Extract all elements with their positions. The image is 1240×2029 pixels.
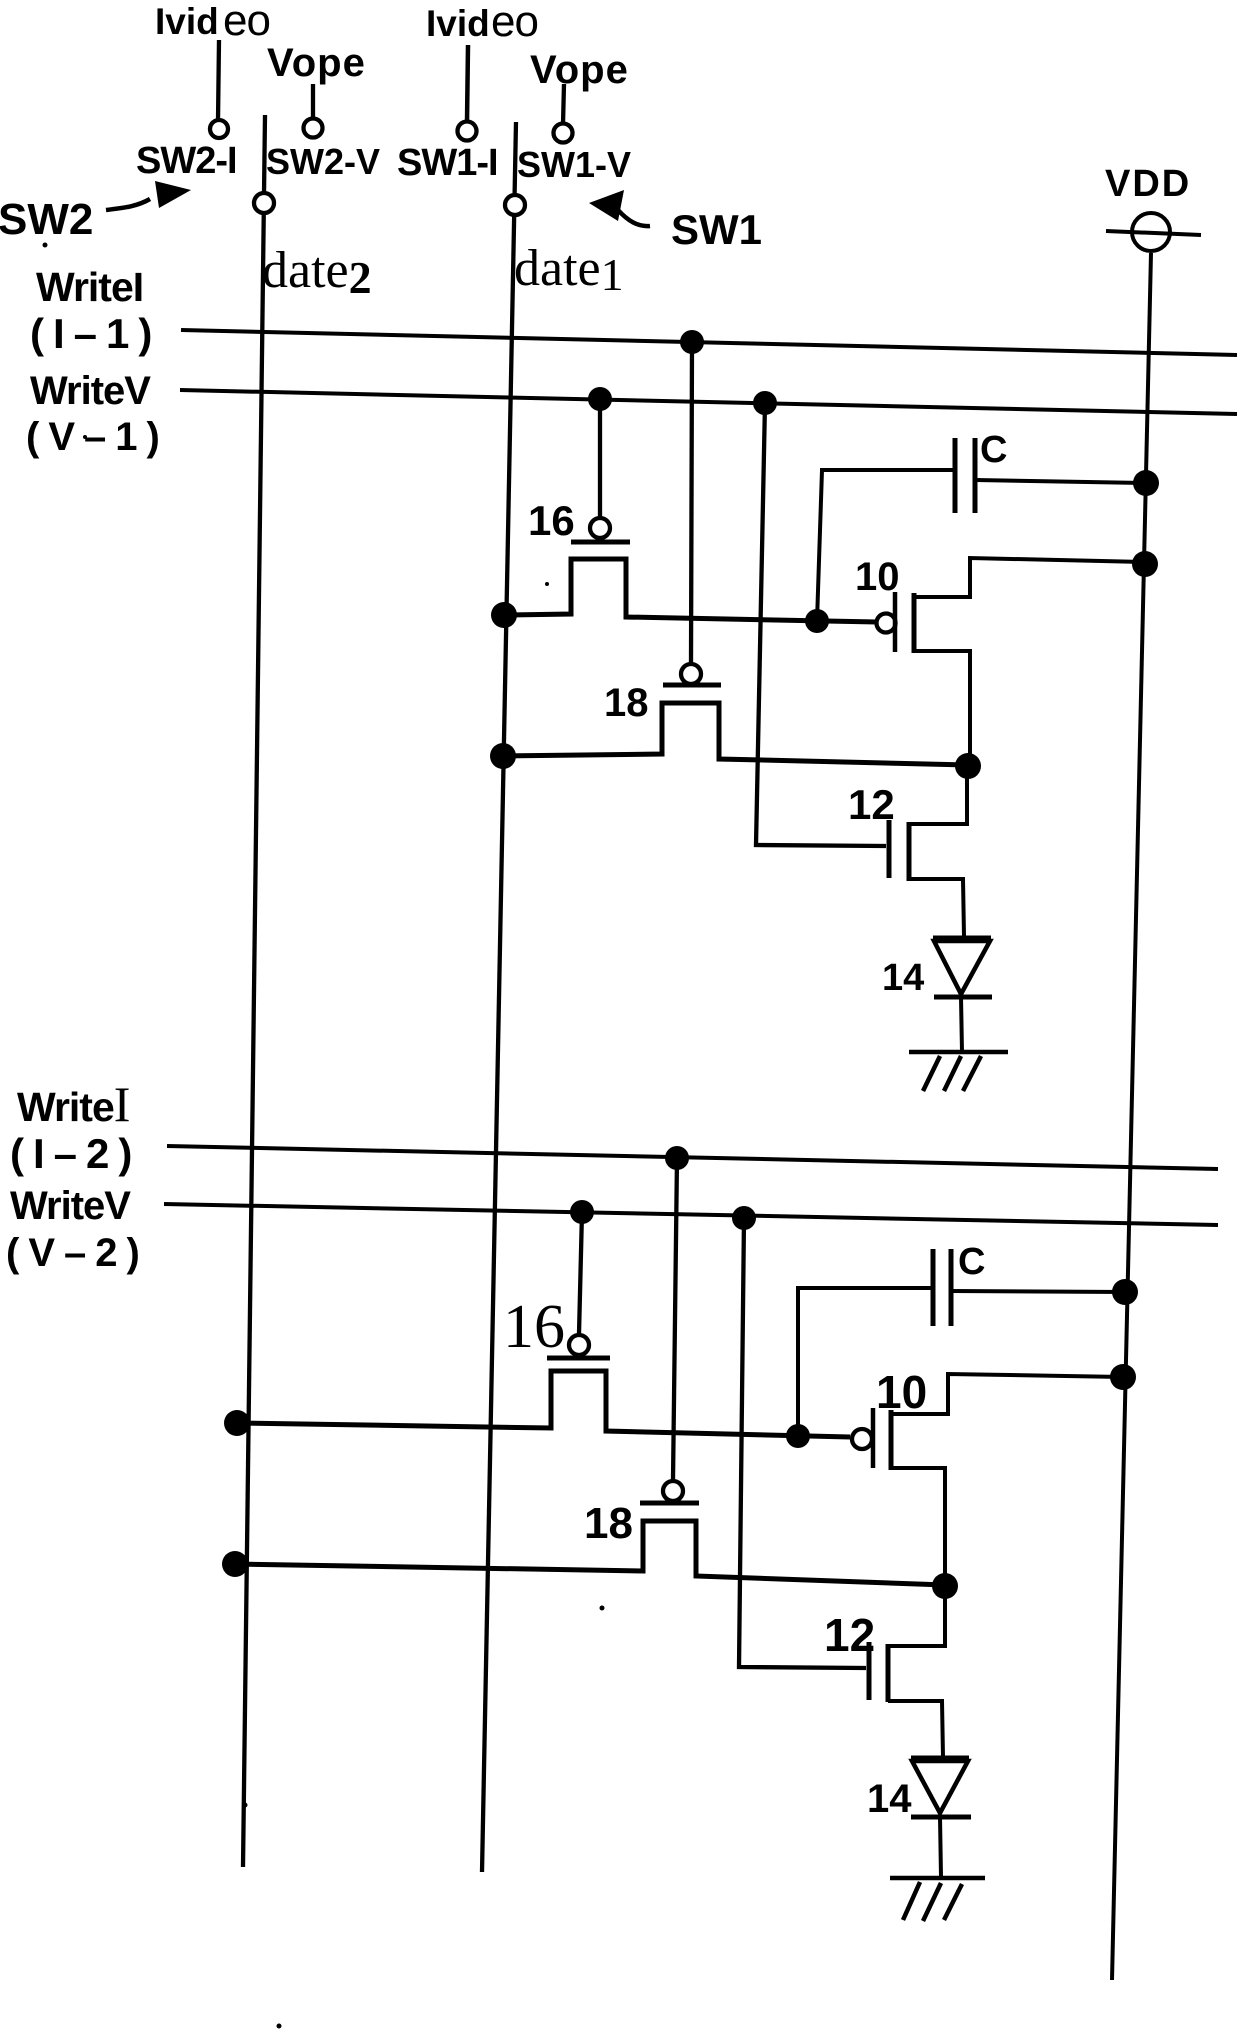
- svg-text:SW1: SW1: [671, 206, 762, 253]
- svg-text:(V–1): (V–1): [26, 415, 169, 459]
- svg-text:date2: date2: [262, 242, 372, 303]
- svg-text:(I–2): (I–2): [10, 1130, 141, 1177]
- svg-text:10: 10: [876, 1366, 927, 1418]
- svg-text:16: 16: [503, 1293, 565, 1361]
- svg-text:18: 18: [604, 681, 649, 725]
- svg-text:WriteI: WriteI: [36, 264, 143, 310]
- svg-text:12: 12: [848, 781, 895, 828]
- svg-text:10: 10: [855, 555, 900, 599]
- svg-text:C: C: [958, 1241, 985, 1283]
- svg-text:SW1-I: SW1-I: [397, 142, 498, 184]
- svg-text:SW1-V: SW1-V: [517, 144, 631, 185]
- svg-text:WriteI: WriteI: [17, 1076, 129, 1132]
- svg-text:eo: eo: [223, 0, 270, 45]
- svg-text:WriteV: WriteV: [30, 369, 151, 413]
- svg-text:Ivid: Ivid: [426, 3, 490, 44]
- svg-text:SW2: SW2: [0, 195, 93, 244]
- svg-text:Vope: Vope: [530, 48, 629, 92]
- svg-text:WriteV: WriteV: [10, 1184, 131, 1228]
- svg-text:(I–1): (I–1): [30, 310, 161, 357]
- svg-text:16: 16: [528, 497, 575, 544]
- svg-text:Vope: Vope: [267, 41, 366, 85]
- svg-text:eo: eo: [491, 0, 538, 46]
- svg-text:14: 14: [867, 1777, 912, 1821]
- svg-text:SW2-V: SW2-V: [266, 141, 380, 182]
- svg-text:date1: date1: [514, 240, 624, 300]
- svg-text:18: 18: [584, 1499, 633, 1548]
- svg-text:C: C: [980, 429, 1007, 471]
- svg-text:14: 14: [882, 957, 924, 999]
- svg-text:VDD: VDD: [1105, 163, 1191, 205]
- svg-text:12: 12: [824, 1609, 875, 1661]
- svg-text:Ivid: Ivid: [155, 1, 219, 42]
- svg-text:SW2-I: SW2-I: [136, 140, 237, 182]
- svg-text:(V–2): (V–2): [6, 1231, 149, 1275]
